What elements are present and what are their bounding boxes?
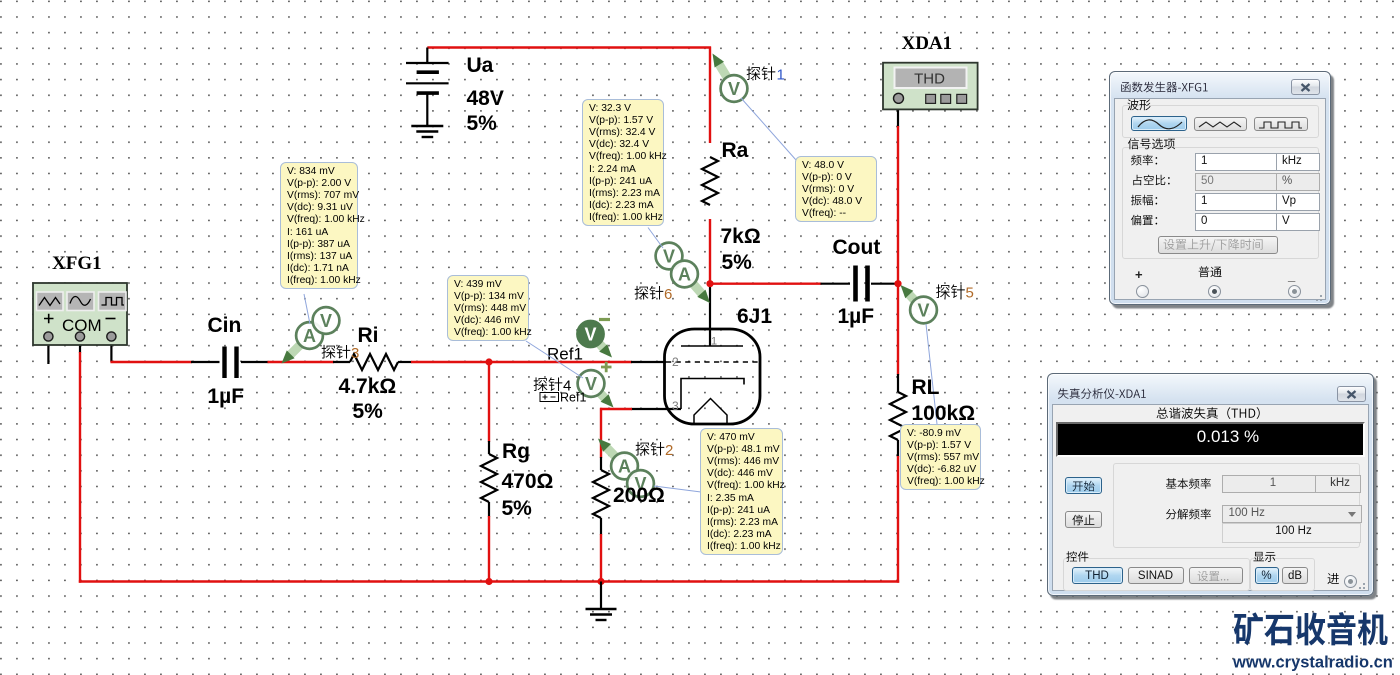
XFG1 rise/fall button label <box>1164 239 1263 251</box>
probe 1 arrow <box>713 54 729 80</box>
XDA1 SINAD button <box>1128 567 1184 584</box>
distortion analyzer XDA1 icon <box>883 63 978 110</box>
probe 5 leader <box>926 324 937 424</box>
tube grid (dashed) <box>666 361 758 363</box>
svg-text:5: 5 <box>966 285 974 302</box>
label Ra tolerance 5% <box>722 252 752 273</box>
label Ri tolerance 5% <box>353 401 383 422</box>
svg-text:THD: THD <box>914 71 945 88</box>
wire bottom rail <box>79 580 899 582</box>
wire Cin lead right (black) <box>241 361 269 363</box>
XDA1 settings… button label <box>1198 571 1229 581</box>
svg-text:V: V <box>917 301 929 321</box>
svg-text:Ref1: Ref1 <box>547 345 583 364</box>
XDA1 stop button <box>1065 511 1102 528</box>
XFG1 amplitude label <box>1131 195 1157 206</box>
probe 4 V circle <box>578 370 605 397</box>
wire XFG1 - lead (black) <box>110 340 112 362</box>
label Ri <box>358 325 379 346</box>
XDA1 resize grip <box>1356 580 1366 590</box>
probe 3 measurement box <box>280 162 358 289</box>
XDA1 THD button (selected) <box>1072 567 1123 584</box>
tube heater <box>694 399 727 426</box>
wire RL lead top (black) <box>897 374 899 392</box>
wire Rg column upper <box>488 361 490 442</box>
wire Ri lead left (black) <box>333 361 350 363</box>
XDA1 controls group label <box>1066 551 1088 562</box>
probe 5 label <box>936 284 965 298</box>
wire node-to-Cout <box>710 283 822 285</box>
XFG1 resize grip <box>1313 292 1323 302</box>
label Ua value 48V <box>467 88 504 109</box>
label XDA1 designator <box>902 34 953 53</box>
svg-text:3: 3 <box>351 345 359 362</box>
wire Ri lead right (black) <box>398 361 412 363</box>
label Ra <box>722 140 749 161</box>
ground at cathode <box>586 582 617 621</box>
XFG1 polarity radios <box>1136 285 1149 298</box>
XFG1 offset label <box>1131 215 1157 226</box>
probe 4 measurement box <box>447 275 529 341</box>
probe 6 leader <box>648 228 663 249</box>
wire junction-to-grid <box>489 361 632 363</box>
resistor Rk 200ohm <box>593 470 609 518</box>
svg-text:6: 6 <box>664 286 672 303</box>
XDA1 display groupbox <box>1250 558 1315 591</box>
resistor Ra <box>702 157 718 205</box>
wire Cout-to-RL-node <box>896 283 899 285</box>
label Ua <box>467 55 494 76</box>
vacuum tube V1 6J1 envelope <box>665 329 761 424</box>
wire XFG1 + lead (black) <box>47 340 49 364</box>
probe 3 V circle <box>313 307 340 334</box>
label Cout <box>833 237 881 258</box>
XFG1 signal options group label <box>1128 138 1175 149</box>
label Cin value 1µF <box>208 386 245 407</box>
XDA1 resolution freq label <box>1166 509 1211 520</box>
XFG1 amplitude input <box>1195 193 1279 211</box>
wire RL column upper <box>897 284 899 375</box>
label Rk value 200Ω <box>613 485 665 506</box>
XFG1 dialog title <box>1121 82 1208 93</box>
XDA1 start button label <box>1073 481 1095 492</box>
wire top rail <box>427 46 711 48</box>
wire Rk column lower <box>600 534 602 583</box>
XDA1 dB button <box>1282 567 1308 584</box>
wire RL lead bottom (black) <box>897 440 899 457</box>
label tube 6J1 <box>737 306 772 327</box>
wire Cout lead left (black) <box>821 283 851 285</box>
probe 5 measurement box <box>900 424 981 490</box>
label Rg tolerance 5% <box>502 498 532 519</box>
svg-text:2: 2 <box>665 442 673 459</box>
XDA1 THD heading <box>1157 407 1260 419</box>
probe 4 arrow <box>593 386 614 408</box>
function generator dialog window XFG1 <box>1109 71 1331 305</box>
label XFG1 designator <box>52 254 102 273</box>
XDA1 controls groupbox <box>1063 558 1250 591</box>
probe 4 reference tag <box>540 393 559 402</box>
probe 5 V circle <box>910 297 937 324</box>
svg-text:3: 3 <box>672 399 679 413</box>
svg-text:Ref1: Ref1 <box>560 391 586 405</box>
XDA1 progress label <box>1328 573 1340 584</box>
XFG1 dialog waveform groupbox <box>1122 105 1319 138</box>
probe Ref1 minus mark <box>599 318 610 321</box>
svg-text:A: A <box>678 265 691 285</box>
XFG1 dialog triangle button <box>1194 117 1247 131</box>
XFG1 terminal COM <box>75 332 84 341</box>
probe 4 plus mark <box>601 362 612 373</box>
wire Cin lead left (black) <box>191 361 220 363</box>
XFG1 frequency label <box>1131 155 1157 166</box>
XFG1 - terminal mark <box>106 318 116 320</box>
label RL <box>912 377 940 398</box>
svg-text:V: V <box>585 374 597 394</box>
svg-text:2: 2 <box>672 355 679 369</box>
probe 3 label <box>322 345 351 359</box>
wire Rg lead top (black) <box>488 441 490 454</box>
XFG1 dialog sine button (selected) <box>1131 116 1187 131</box>
wire input to Cin <box>110 361 192 363</box>
XFG1 offset input <box>1195 213 1279 231</box>
wire RL column lower <box>897 456 899 583</box>
watermark 矿石收音机 <box>1234 612 1388 645</box>
XFG1 dialog square button <box>1254 117 1308 131</box>
svg-text:V: V <box>663 247 675 267</box>
XFG1 terminal - <box>107 332 116 341</box>
wire cathode lead (black) <box>631 408 681 410</box>
XDA1 fundamental freq label <box>1166 478 1211 489</box>
wire XDA1 down <box>897 126 899 285</box>
node Rk/ground junction <box>597 578 604 585</box>
XDA1 resolution freq dropdown (disabled) <box>1222 505 1362 523</box>
probe 2 V circle <box>627 470 654 497</box>
wire cathode down <box>600 408 602 458</box>
capacitor Cout <box>856 266 868 302</box>
resistor Ri <box>350 354 398 370</box>
XDA1 fundamental freq input (disabled) <box>1222 475 1320 493</box>
probe 2 leader <box>654 486 701 492</box>
wire Cout lead right (black) <box>871 283 897 285</box>
wire XFG1 COM down <box>79 352 81 583</box>
XDA1 terminal <box>894 93 904 103</box>
XFG1 + terminal mark <box>44 314 54 324</box>
wire XFG1 COM lead (black) <box>79 340 81 353</box>
XDA1 settings groupbox <box>1113 463 1360 548</box>
battery Ua <box>406 48 449 127</box>
XFG1 rise/fall time button (disabled) <box>1158 236 1278 254</box>
wire XDA1 lead (black) <box>897 102 899 127</box>
probe 3 A circle <box>296 322 323 349</box>
label Ua tolerance 5% <box>467 113 497 134</box>
XDA1 settings… button (disabled) <box>1189 567 1243 584</box>
XFG1 dialog signal options groupbox <box>1122 147 1319 259</box>
XDA1 dialog title <box>1058 388 1146 399</box>
XFG1 duty cycle input (disabled) <box>1195 173 1279 191</box>
XDA1 THD numeric display <box>1056 422 1365 457</box>
label Ri value 4.7kΩ <box>339 376 397 397</box>
XDA1 progress LED <box>1344 575 1357 588</box>
resistor RL <box>890 392 906 440</box>
function generator XFG1 icon <box>33 283 127 345</box>
capacitor Cin <box>225 347 237 379</box>
tube plate (anode) <box>681 345 743 347</box>
probe 6 measurement box <box>582 99 664 226</box>
probe Ref1 arrow <box>592 335 612 357</box>
probe 1 V circle <box>721 75 748 102</box>
probe 2 measurement box <box>700 428 783 555</box>
XDA1 % button (selected) <box>1255 567 1279 584</box>
wire Rk lead top (black) <box>600 457 602 470</box>
wire Cin-to-Ri <box>268 361 335 363</box>
svg-text:A: A <box>618 457 631 477</box>
wire anode column lower <box>709 219 711 285</box>
XFG1 duty label <box>1133 175 1169 186</box>
svg-text:V: V <box>320 311 332 331</box>
svg-text:1: 1 <box>711 336 717 348</box>
svg-text:V: V <box>728 79 740 99</box>
distortion analyzer dialog window XDA1 <box>1047 373 1374 596</box>
probe 6 V circle <box>656 243 683 270</box>
wire Rg column lower <box>488 516 490 583</box>
label Cout value 1µF <box>838 306 875 327</box>
node grid/Rg junction <box>485 358 492 365</box>
node Rg/bottom-rail junction <box>485 578 492 585</box>
tube cathode <box>681 379 744 410</box>
probe 2 arrow <box>598 439 619 461</box>
probe 1 measurement box <box>795 156 877 222</box>
XDA1 stop button label <box>1072 515 1094 526</box>
probe 6 label <box>635 286 664 300</box>
wire Ri-to-junction <box>411 361 490 363</box>
XDA1 start button (selected) <box>1065 477 1102 494</box>
probe 6 A circle <box>671 261 698 288</box>
probe 6 arrow <box>690 281 710 304</box>
probe 1 leader <box>741 98 796 160</box>
label RL value 100kΩ <box>912 403 976 424</box>
label Rg value 470Ω <box>502 471 554 492</box>
XFG1 terminal + <box>44 332 53 341</box>
wire cathode horiz <box>600 408 632 410</box>
wire anode lead (black) <box>709 284 711 346</box>
XFG1 waveform group label <box>1127 99 1150 110</box>
XFG1 common label <box>1199 266 1222 277</box>
ground at battery <box>411 126 443 137</box>
probe 1 label <box>747 66 776 80</box>
probe 2 A circle <box>611 453 638 480</box>
wire Rk lead bottom (black) <box>600 518 602 535</box>
probe 2 label <box>636 442 665 456</box>
probe 3 arrow <box>282 342 303 363</box>
svg-text:V: V <box>584 325 596 345</box>
probe Ref1 V circle (filled) <box>577 321 604 348</box>
XFG1 frequency input <box>1195 153 1279 171</box>
node Cout/RL junction <box>894 280 901 287</box>
wire anode column upper <box>709 47 711 144</box>
XDA1 display group label <box>1253 552 1275 562</box>
label Rg <box>502 441 530 462</box>
probe 3 leader <box>304 294 310 324</box>
svg-text:1: 1 <box>777 67 785 84</box>
probe 4 label <box>534 377 563 391</box>
wire Rg lead bottom (black) <box>488 502 490 517</box>
label Ra value 7kΩ <box>721 226 761 247</box>
label Cin <box>208 315 242 336</box>
node anode/Cout junction <box>706 280 713 287</box>
resistor Rg <box>481 454 497 502</box>
probe 5 arrow <box>901 285 921 307</box>
probe 4 leader <box>526 341 583 378</box>
wire grid lead (black) <box>631 361 666 363</box>
